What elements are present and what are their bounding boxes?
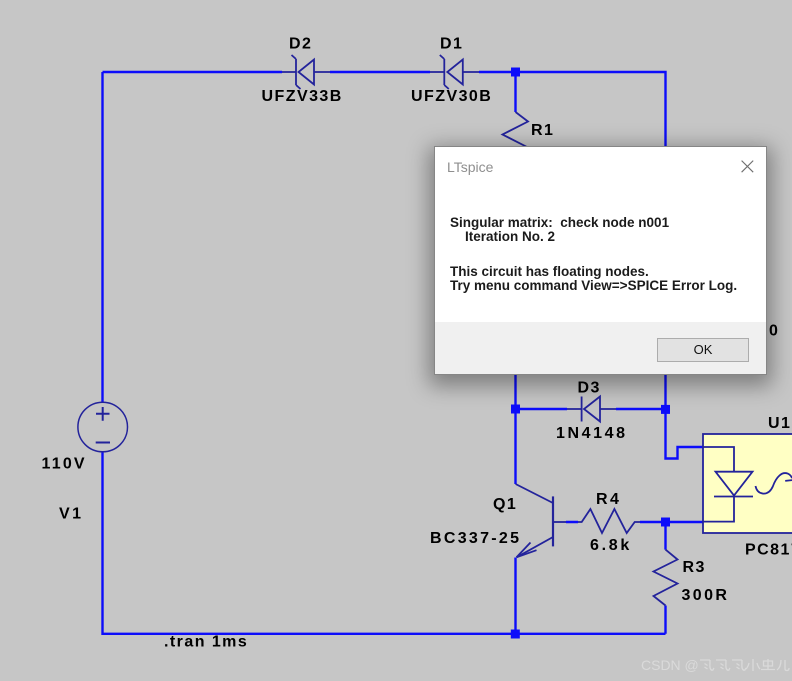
svg-text:R1: R1 bbox=[531, 122, 554, 139]
svg-text:PC817: PC817 bbox=[745, 542, 792, 559]
svg-text:UFZV30B: UFZV30B bbox=[411, 88, 492, 105]
svg-text:110V: 110V bbox=[42, 456, 87, 473]
svg-text:V1: V1 bbox=[59, 506, 84, 523]
svg-text:6.8k: 6.8k bbox=[590, 537, 632, 554]
svg-text:Q1: Q1 bbox=[493, 496, 517, 513]
svg-text:300R: 300R bbox=[682, 587, 730, 604]
svg-text:D2: D2 bbox=[289, 36, 312, 53]
svg-text:1N4148: 1N4148 bbox=[556, 425, 628, 442]
svg-text:D1: D1 bbox=[440, 36, 463, 53]
svg-text:BC337-25: BC337-25 bbox=[430, 530, 521, 547]
svg-text:U1: U1 bbox=[768, 415, 791, 432]
svg-text:R3: R3 bbox=[683, 559, 706, 576]
svg-text:D3: D3 bbox=[578, 380, 601, 397]
svg-text:.tran 1ms: .tran 1ms bbox=[164, 634, 248, 651]
svg-text:UFZV33B: UFZV33B bbox=[262, 88, 343, 105]
svg-text:0: 0 bbox=[769, 323, 779, 340]
svg-text:R4: R4 bbox=[596, 491, 621, 508]
